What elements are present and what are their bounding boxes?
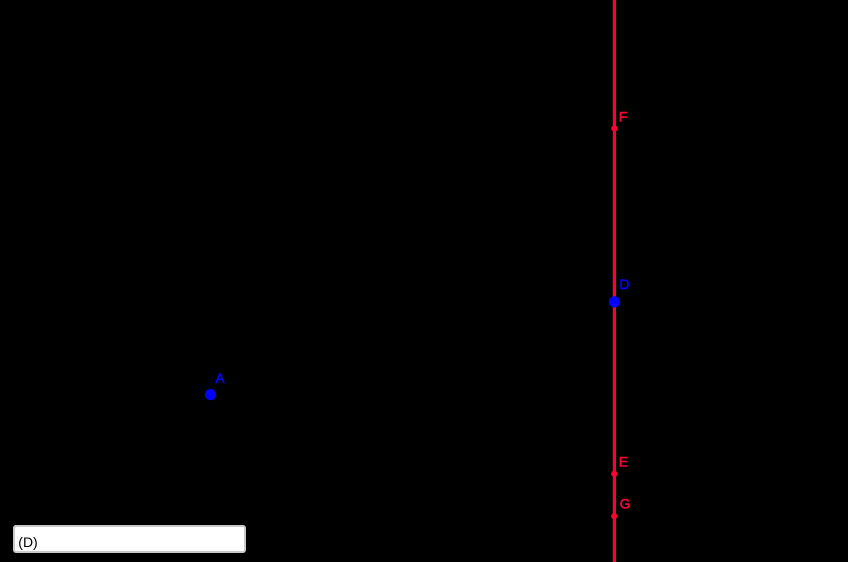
- point F: [611, 125, 617, 131]
- point E: [611, 471, 617, 477]
- svg-text:E: E: [619, 454, 628, 470]
- line d (red vertical line): [613, 0, 616, 562]
- svg-text:A: A: [215, 370, 225, 386]
- point G: [611, 513, 617, 519]
- svg-text:G: G: [620, 495, 631, 511]
- svg-text:F: F: [619, 109, 628, 125]
- input field (D): [13, 525, 245, 553]
- svg-text:D: D: [619, 276, 629, 292]
- point A: [205, 389, 216, 400]
- point D: [609, 296, 620, 307]
